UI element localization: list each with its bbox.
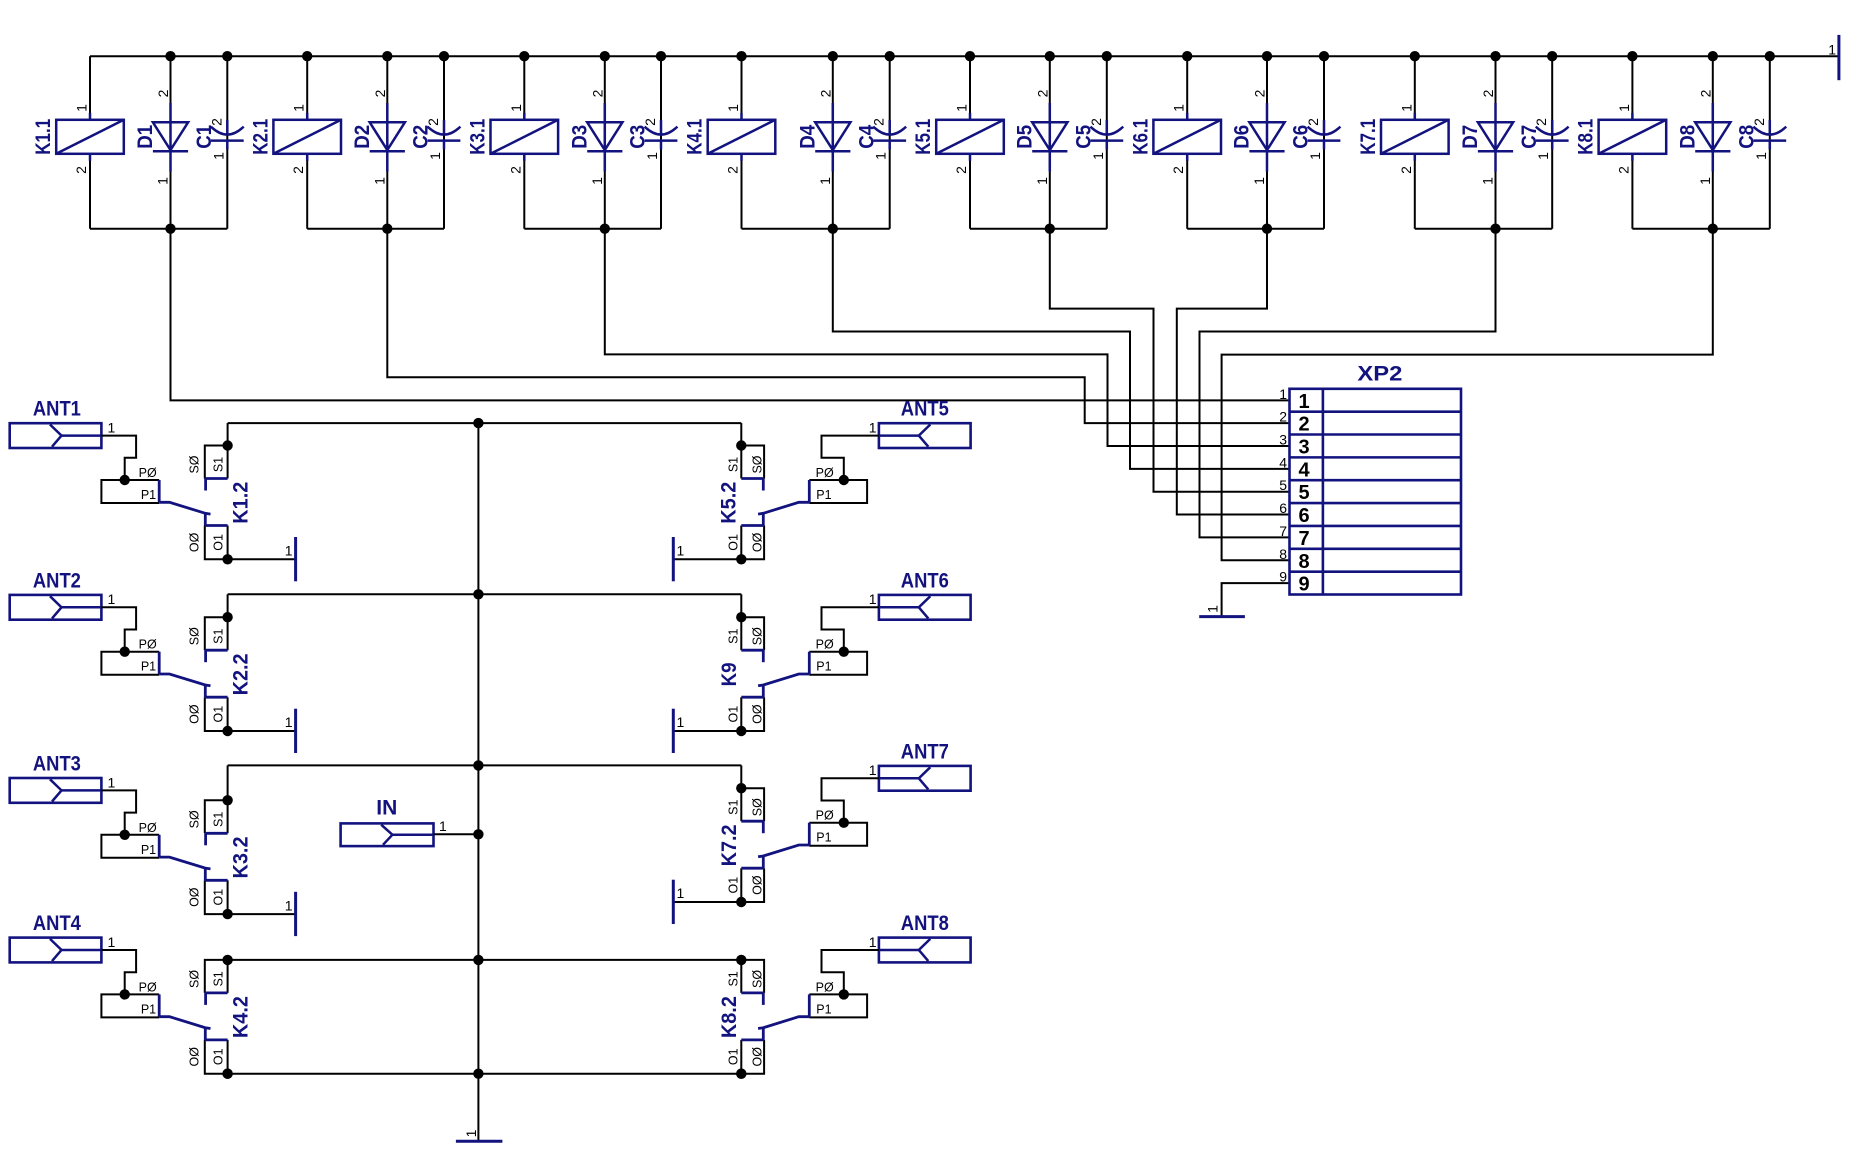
svg-text:K6.1: K6.1 xyxy=(1129,119,1152,155)
svg-text:1: 1 xyxy=(427,152,443,160)
svg-text:ANT1: ANT1 xyxy=(33,398,81,421)
svg-text:1: 1 xyxy=(285,714,293,730)
svg-text:2: 2 xyxy=(1398,166,1414,174)
svg-text:SØ: SØ xyxy=(187,455,201,473)
svg-text:1: 1 xyxy=(644,152,660,160)
svg-text:P1: P1 xyxy=(816,1002,831,1016)
svg-text:2: 2 xyxy=(1751,118,1767,126)
svg-text:OØ: OØ xyxy=(187,1047,201,1067)
svg-text:S1: S1 xyxy=(727,971,741,986)
svg-text:SØ: SØ xyxy=(187,627,201,645)
svg-text:1: 1 xyxy=(155,177,171,185)
svg-text:1: 1 xyxy=(1251,177,1267,185)
svg-text:2: 2 xyxy=(1698,89,1714,97)
svg-text:K7.2: K7.2 xyxy=(718,824,741,866)
svg-text:K3.1: K3.1 xyxy=(466,119,489,155)
svg-text:O1: O1 xyxy=(211,706,225,723)
svg-text:O1: O1 xyxy=(727,877,741,894)
svg-text:1: 1 xyxy=(108,934,116,950)
svg-text:S1: S1 xyxy=(211,457,225,472)
svg-text:PØ: PØ xyxy=(139,466,157,480)
svg-text:K1.1: K1.1 xyxy=(32,119,55,155)
svg-text:1: 1 xyxy=(1171,104,1187,112)
svg-text:1: 1 xyxy=(725,104,741,112)
svg-text:9: 9 xyxy=(1279,569,1287,585)
svg-text:O1: O1 xyxy=(211,1048,225,1065)
svg-text:2: 2 xyxy=(1035,89,1051,97)
svg-text:ANT2: ANT2 xyxy=(33,569,81,592)
svg-text:OØ: OØ xyxy=(750,704,764,724)
svg-text:C8: C8 xyxy=(1735,125,1758,149)
svg-text:1: 1 xyxy=(439,818,447,834)
svg-text:OØ: OØ xyxy=(750,532,764,552)
svg-text:1: 1 xyxy=(210,152,226,160)
svg-text:2: 2 xyxy=(1170,166,1186,174)
svg-text:1: 1 xyxy=(1697,177,1713,185)
svg-text:9: 9 xyxy=(1298,574,1309,596)
svg-text:8: 8 xyxy=(1279,546,1287,562)
svg-text:1: 1 xyxy=(1298,391,1309,413)
svg-text:2: 2 xyxy=(73,166,89,174)
svg-text:2: 2 xyxy=(290,166,306,174)
svg-text:K8.1: K8.1 xyxy=(1574,119,1597,155)
svg-text:ANT3: ANT3 xyxy=(33,752,81,775)
svg-text:1: 1 xyxy=(869,420,877,436)
svg-text:K4.1: K4.1 xyxy=(684,119,707,155)
svg-text:2: 2 xyxy=(1305,118,1321,126)
svg-text:PØ: PØ xyxy=(139,980,157,994)
svg-text:PØ: PØ xyxy=(139,821,157,835)
svg-text:SØ: SØ xyxy=(750,970,764,988)
svg-text:1: 1 xyxy=(108,420,116,436)
svg-text:1: 1 xyxy=(1279,386,1287,402)
svg-text:1: 1 xyxy=(1535,152,1551,160)
svg-text:IN: IN xyxy=(376,797,397,820)
svg-text:C6: C6 xyxy=(1290,125,1313,149)
svg-text:P1: P1 xyxy=(816,831,831,845)
svg-text:OØ: OØ xyxy=(187,704,201,724)
svg-text:S1: S1 xyxy=(211,971,225,986)
svg-text:C3: C3 xyxy=(627,125,650,149)
svg-text:1: 1 xyxy=(817,177,833,185)
svg-text:SØ: SØ xyxy=(750,627,764,645)
svg-text:O1: O1 xyxy=(727,534,741,551)
svg-text:P1: P1 xyxy=(141,1002,156,1016)
svg-text:S1: S1 xyxy=(211,629,225,644)
svg-text:XP2: XP2 xyxy=(1357,362,1402,385)
svg-text:1: 1 xyxy=(677,714,685,730)
svg-text:D4: D4 xyxy=(796,125,819,149)
svg-text:4: 4 xyxy=(1298,459,1310,481)
svg-text:2: 2 xyxy=(507,166,523,174)
svg-text:P1: P1 xyxy=(141,843,156,857)
svg-text:ANT6: ANT6 xyxy=(901,569,949,592)
svg-text:ANT5: ANT5 xyxy=(901,398,949,421)
svg-text:2: 2 xyxy=(1615,166,1631,174)
svg-text:1: 1 xyxy=(371,177,387,185)
svg-text:ANT8: ANT8 xyxy=(901,912,949,935)
svg-text:3: 3 xyxy=(1298,437,1309,459)
svg-text:1: 1 xyxy=(1398,104,1414,112)
svg-text:2: 2 xyxy=(1480,89,1496,97)
svg-text:2: 2 xyxy=(208,118,224,126)
svg-text:K3.2: K3.2 xyxy=(229,837,252,879)
svg-text:1: 1 xyxy=(954,104,970,112)
svg-text:5: 5 xyxy=(1298,482,1309,504)
svg-text:1: 1 xyxy=(291,104,307,112)
svg-text:K8.2: K8.2 xyxy=(718,996,741,1038)
svg-text:P1: P1 xyxy=(816,660,831,674)
svg-text:OØ: OØ xyxy=(187,887,201,907)
svg-text:2: 2 xyxy=(590,89,606,97)
svg-text:S1: S1 xyxy=(727,457,741,472)
svg-text:2: 2 xyxy=(642,118,658,126)
svg-text:1: 1 xyxy=(1205,605,1221,613)
svg-text:K7.1: K7.1 xyxy=(1357,119,1380,155)
svg-text:2: 2 xyxy=(1533,118,1549,126)
svg-text:D1: D1 xyxy=(134,125,157,149)
svg-text:7: 7 xyxy=(1298,528,1309,550)
svg-text:2: 2 xyxy=(871,118,887,126)
svg-text:OØ: OØ xyxy=(187,532,201,552)
svg-text:4: 4 xyxy=(1279,454,1287,470)
svg-text:1: 1 xyxy=(677,885,685,901)
svg-text:K5.2: K5.2 xyxy=(718,482,741,524)
svg-text:K2.2: K2.2 xyxy=(229,653,252,695)
svg-text:1: 1 xyxy=(1616,104,1632,112)
svg-text:K9: K9 xyxy=(718,662,741,686)
svg-text:2: 2 xyxy=(953,166,969,174)
svg-text:C2: C2 xyxy=(410,125,433,149)
svg-text:K5.1: K5.1 xyxy=(912,119,935,155)
svg-text:3: 3 xyxy=(1279,432,1287,448)
svg-text:O1: O1 xyxy=(727,1048,741,1065)
svg-text:1: 1 xyxy=(285,897,293,913)
svg-text:1: 1 xyxy=(1090,152,1106,160)
svg-text:1: 1 xyxy=(873,152,889,160)
svg-text:2: 2 xyxy=(1252,89,1268,97)
svg-text:1: 1 xyxy=(508,104,524,112)
svg-text:1: 1 xyxy=(869,934,877,950)
svg-text:1: 1 xyxy=(108,591,116,607)
svg-text:P1: P1 xyxy=(141,488,156,502)
svg-text:P1: P1 xyxy=(141,660,156,674)
svg-text:SØ: SØ xyxy=(750,798,764,816)
svg-text:K1.2: K1.2 xyxy=(229,482,252,524)
svg-text:D7: D7 xyxy=(1459,125,1482,149)
svg-text:D2: D2 xyxy=(351,125,374,149)
svg-text:K4.2: K4.2 xyxy=(229,996,252,1038)
svg-text:PØ: PØ xyxy=(816,638,834,652)
svg-text:2: 2 xyxy=(1279,409,1287,425)
svg-text:D5: D5 xyxy=(1013,125,1036,149)
svg-text:PØ: PØ xyxy=(816,809,834,823)
svg-text:S1: S1 xyxy=(727,629,741,644)
svg-text:OØ: OØ xyxy=(750,875,764,895)
svg-text:2: 2 xyxy=(725,166,741,174)
svg-text:SØ: SØ xyxy=(187,970,201,988)
svg-text:1: 1 xyxy=(1034,177,1050,185)
svg-text:P1: P1 xyxy=(816,488,831,502)
svg-text:1: 1 xyxy=(285,543,293,559)
svg-text:PØ: PØ xyxy=(816,466,834,480)
svg-text:D8: D8 xyxy=(1676,125,1699,149)
svg-text:1: 1 xyxy=(869,762,877,778)
svg-text:2: 2 xyxy=(818,89,834,97)
svg-text:1: 1 xyxy=(463,1129,479,1137)
svg-text:1: 1 xyxy=(869,591,877,607)
svg-text:1: 1 xyxy=(1828,42,1836,58)
svg-text:ANT4: ANT4 xyxy=(33,912,81,935)
svg-text:S1: S1 xyxy=(727,800,741,815)
svg-text:OØ: OØ xyxy=(750,1047,764,1067)
svg-text:5: 5 xyxy=(1279,477,1287,493)
svg-text:2: 2 xyxy=(425,118,441,126)
svg-text:PØ: PØ xyxy=(139,638,157,652)
svg-text:SØ: SØ xyxy=(187,810,201,828)
svg-text:O1: O1 xyxy=(211,889,225,906)
svg-text:S1: S1 xyxy=(211,812,225,827)
svg-text:2: 2 xyxy=(155,89,171,97)
svg-text:1: 1 xyxy=(677,543,685,559)
svg-text:1: 1 xyxy=(589,177,605,185)
svg-text:C4: C4 xyxy=(855,125,878,149)
svg-text:O1: O1 xyxy=(727,706,741,723)
svg-text:K2.1: K2.1 xyxy=(249,119,272,155)
svg-text:SØ: SØ xyxy=(750,455,764,473)
svg-text:2: 2 xyxy=(372,89,388,97)
svg-text:2: 2 xyxy=(1298,414,1309,436)
svg-text:6: 6 xyxy=(1279,500,1287,516)
svg-text:8: 8 xyxy=(1298,551,1309,573)
svg-text:6: 6 xyxy=(1298,505,1309,527)
svg-text:C1: C1 xyxy=(193,125,216,149)
svg-text:1: 1 xyxy=(1480,177,1496,185)
svg-text:1: 1 xyxy=(1753,152,1769,160)
svg-text:ANT7: ANT7 xyxy=(901,740,949,763)
svg-text:1: 1 xyxy=(108,774,116,790)
svg-text:C7: C7 xyxy=(1518,125,1541,149)
svg-text:C5: C5 xyxy=(1072,125,1095,149)
svg-text:1: 1 xyxy=(74,104,90,112)
svg-text:D3: D3 xyxy=(568,125,591,149)
svg-text:PØ: PØ xyxy=(816,980,834,994)
svg-text:O1: O1 xyxy=(211,534,225,551)
svg-text:D6: D6 xyxy=(1231,125,1254,149)
svg-text:1: 1 xyxy=(1307,152,1323,160)
svg-text:2: 2 xyxy=(1088,118,1104,126)
svg-text:7: 7 xyxy=(1279,523,1287,539)
